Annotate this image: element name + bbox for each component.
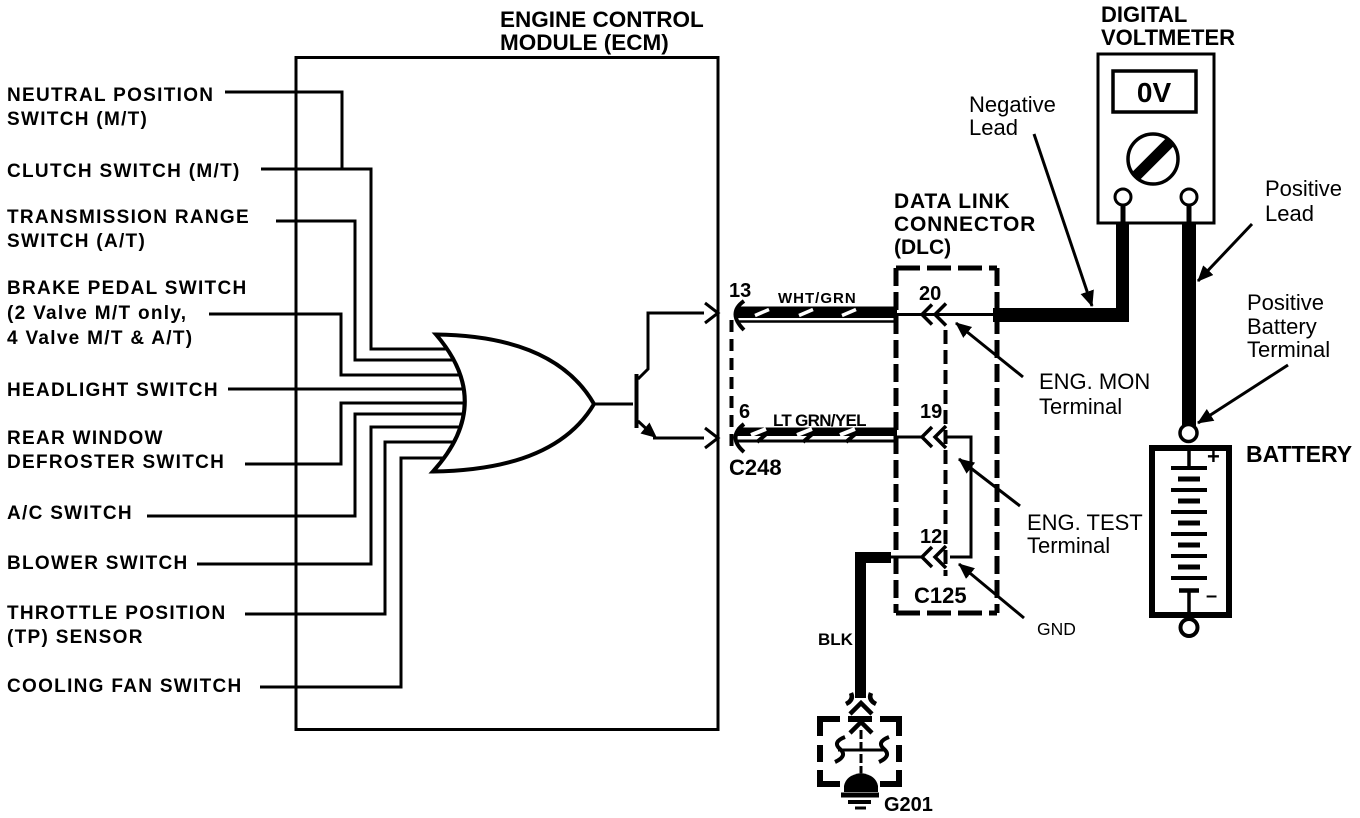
svg-text:THROTTLE POSITION: THROTTLE POSITION xyxy=(7,603,227,624)
svg-text:HEADLIGHT SWITCH: HEADLIGHT SWITCH xyxy=(7,380,219,401)
svg-text:0V: 0V xyxy=(1137,77,1172,108)
svg-text:SWITCH (A/T): SWITCH (A/T) xyxy=(7,231,146,252)
svg-text:+: + xyxy=(1207,444,1220,469)
svg-text:Negative: Negative xyxy=(969,92,1056,117)
svg-text:MODULE (ECM): MODULE (ECM) xyxy=(500,30,669,55)
svg-text:Lead: Lead xyxy=(1265,201,1314,226)
svg-text:13: 13 xyxy=(729,280,751,302)
svg-text:12: 12 xyxy=(920,526,942,548)
svg-text:Lead: Lead xyxy=(969,115,1018,140)
svg-text:Terminal: Terminal xyxy=(1027,533,1110,558)
svg-text:Positive: Positive xyxy=(1265,176,1342,201)
svg-text:GND: GND xyxy=(1037,619,1076,639)
svg-text:Terminal: Terminal xyxy=(1247,337,1330,362)
svg-text:A/C SWITCH: A/C SWITCH xyxy=(7,503,133,524)
svg-text:–: – xyxy=(1206,585,1217,607)
svg-text:BRAKE PEDAL SWITCH: BRAKE PEDAL SWITCH xyxy=(7,278,248,299)
svg-text:CLUTCH SWITCH (M/T): CLUTCH SWITCH (M/T) xyxy=(7,161,241,182)
svg-text:WHT/GRN: WHT/GRN xyxy=(778,290,857,307)
svg-text:Battery: Battery xyxy=(1247,314,1317,339)
svg-text:Positive: Positive xyxy=(1247,290,1324,315)
svg-text:NEUTRAL POSITION: NEUTRAL POSITION xyxy=(7,85,214,106)
svg-text:SWITCH (M/T): SWITCH (M/T) xyxy=(7,109,148,130)
svg-text:DIGITAL: DIGITAL xyxy=(1101,2,1187,27)
svg-text:ENG. MON: ENG. MON xyxy=(1039,369,1150,394)
svg-text:C125: C125 xyxy=(914,583,967,608)
svg-text:BATTERY: BATTERY xyxy=(1246,441,1352,467)
svg-text:TRANSMISSION RANGE: TRANSMISSION RANGE xyxy=(7,207,250,228)
svg-text:ENG. TEST: ENG. TEST xyxy=(1027,510,1143,535)
svg-text:DATA LINK: DATA LINK xyxy=(894,190,1010,213)
svg-text:C248: C248 xyxy=(729,455,782,480)
svg-text:BLK: BLK xyxy=(818,630,854,649)
svg-text:(2 Valve M/T only,: (2 Valve M/T only, xyxy=(7,303,187,324)
svg-text:VOLTMETER: VOLTMETER xyxy=(1101,25,1235,50)
svg-text:ENGINE CONTROL: ENGINE CONTROL xyxy=(500,7,704,32)
svg-text:19: 19 xyxy=(920,401,942,423)
svg-text:BLOWER SWITCH: BLOWER SWITCH xyxy=(7,553,189,574)
svg-text:DEFROSTER SWITCH: DEFROSTER SWITCH xyxy=(7,452,225,473)
svg-text:20: 20 xyxy=(919,283,941,305)
svg-text:4 Valve M/T & A/T): 4 Valve M/T & A/T) xyxy=(7,328,193,349)
svg-text:(DLC): (DLC) xyxy=(894,236,951,259)
svg-text:6: 6 xyxy=(739,401,750,423)
svg-text:CONNECTOR: CONNECTOR xyxy=(894,213,1036,236)
svg-text:COOLING FAN SWITCH: COOLING FAN SWITCH xyxy=(7,676,243,697)
svg-text:Terminal: Terminal xyxy=(1039,394,1122,419)
svg-text:LT GRN/YEL: LT GRN/YEL xyxy=(773,411,866,430)
svg-text:G201: G201 xyxy=(884,794,933,816)
svg-text:REAR WINDOW: REAR WINDOW xyxy=(7,428,164,449)
svg-text:(TP) SENSOR: (TP) SENSOR xyxy=(7,627,144,648)
